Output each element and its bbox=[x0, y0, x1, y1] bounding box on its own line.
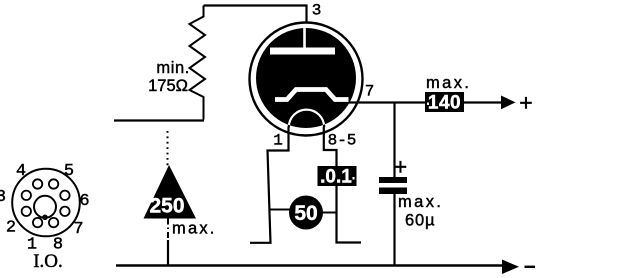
svg-text:2: 2 bbox=[6, 219, 16, 238]
svg-text:min.: min. bbox=[156, 59, 190, 77]
svg-text:8-5: 8-5 bbox=[328, 132, 357, 150]
wire: stub from 50 circle (right) bbox=[322, 212, 338, 214]
svg-text:4: 4 bbox=[16, 162, 26, 181]
socket center keyway bbox=[34, 196, 56, 218]
tube V1 envelope bbox=[250, 23, 363, 136]
svg-text:140: 140 bbox=[428, 93, 461, 114]
output arrow (B+) bbox=[501, 96, 516, 110]
anode plate bar bbox=[270, 48, 335, 55]
label: max. 60µ bbox=[398, 193, 443, 230]
svg-text:5: 5 bbox=[64, 162, 74, 181]
socket pin numbers bbox=[0, 162, 90, 255]
wire: capacitor to negative rail bbox=[393, 194, 395, 266]
svg-text:175Ω: 175Ω bbox=[148, 77, 188, 95]
black disc bbox=[256, 28, 356, 128]
svg-text:50: 50 bbox=[294, 202, 317, 225]
svg-text:7: 7 bbox=[365, 83, 375, 101]
svg-text:7: 7 bbox=[73, 220, 83, 239]
svg-text:.0.1: .0.1 bbox=[320, 167, 352, 188]
wire: pin 8-5 lead down through 0.1 to open stub bbox=[324, 127, 361, 243]
label: minus output bbox=[525, 266, 536, 268]
wire: B+ junction down to reservoir capacitor bbox=[393, 103, 395, 178]
label: resistor value min. 175Ω bbox=[148, 59, 190, 95]
svg-text:+: + bbox=[519, 90, 532, 116]
heater dome arc (black part outside the disc) bbox=[289, 110, 324, 128]
svg-text:6: 6 bbox=[79, 192, 89, 211]
voltage marker triangle 250 max. bbox=[144, 165, 197, 219]
svg-text:3: 3 bbox=[312, 2, 322, 20]
resistor R1 min.175Ω zigzag bbox=[190, 6, 206, 120]
svg-text:I.O.: I.O. bbox=[33, 251, 63, 272]
svg-text:max.: max. bbox=[398, 193, 443, 211]
capacitor C1 electrolytic max.60µ bbox=[379, 177, 407, 194]
dash-dot line below triangle to rail bbox=[167, 219, 169, 242]
capacitor C2 0.1 (black box) bbox=[318, 166, 357, 188]
svg-text:250: 250 bbox=[149, 195, 184, 218]
negative rail (bottom) bbox=[116, 264, 502, 267]
wire: pin 7 to output bbox=[349, 101, 501, 103]
voltage box 140 bbox=[425, 92, 464, 114]
svg-text:+: + bbox=[394, 154, 407, 180]
resistor 50 (circle symbol) bbox=[289, 196, 323, 230]
svg-text:60µ: 60µ bbox=[405, 212, 435, 230]
wire: pin 1 heater lead (steps down-left, open stub) bbox=[250, 127, 289, 243]
svg-text:1: 1 bbox=[273, 132, 283, 150]
cathode (white bent line) bbox=[275, 90, 349, 100]
anode lead (white, inside disc) bbox=[303, 26, 306, 49]
heater dome arc white part inside disc bbox=[289, 110, 324, 128]
octal socket diagram I.O. bbox=[12, 169, 80, 237]
svg-text:max.: max. bbox=[426, 74, 471, 92]
svg-text:3: 3 bbox=[0, 188, 6, 207]
wire: left lead at resistor bottom bbox=[114, 119, 204, 121]
svg-text:max.: max. bbox=[172, 220, 217, 238]
dotted measurement line (above triangle) bbox=[167, 131, 169, 167]
negative output arrow bbox=[502, 260, 519, 275]
wire: top anode supply (resistor top to pin 3) bbox=[204, 6, 307, 23]
socket holes bbox=[60, 191, 69, 200]
wire: stub to 50 circle (left) bbox=[269, 209, 290, 211]
